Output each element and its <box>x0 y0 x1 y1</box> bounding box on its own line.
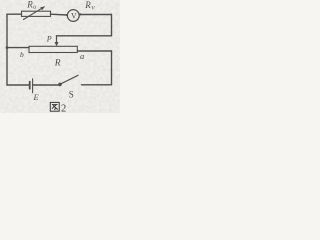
svg-text:R: R <box>26 0 33 10</box>
svg-text:S: S <box>69 89 74 99</box>
svg-text:V: V <box>71 11 77 20</box>
svg-text:b: b <box>20 50 24 59</box>
svg-text:2: 2 <box>61 104 66 114</box>
svg-text:P: P <box>46 35 52 44</box>
svg-text:a: a <box>80 51 84 61</box>
svg-text:R: R <box>54 59 61 69</box>
svg-text:E: E <box>33 92 40 102</box>
svg-text:0: 0 <box>33 5 36 11</box>
